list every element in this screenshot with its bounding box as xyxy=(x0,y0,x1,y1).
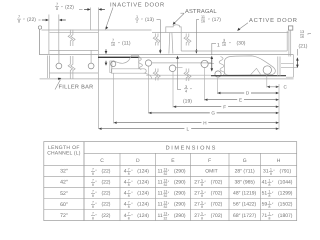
svg-text:7: 7 xyxy=(56,3,58,7)
ext line right common xyxy=(278,84,280,130)
dim left arrow right xyxy=(42,19,47,21)
extension line d long xyxy=(97,8,99,129)
filler bar top line xyxy=(50,49,99,51)
svg-text:7: 7 xyxy=(128,190,130,194)
svg-text:(124): (124) xyxy=(137,191,149,197)
svg-text:48″ (1219): 48″ (1219) xyxy=(233,191,257,197)
svg-text:11: 11 xyxy=(157,213,162,219)
svg-text:F: F xyxy=(208,158,211,164)
dim top arrow left xyxy=(100,8,105,10)
svg-text:(11): (11) xyxy=(122,41,131,47)
dim L line xyxy=(98,128,101,130)
svg-text:59: 59 xyxy=(262,202,268,208)
svg-text:3: 3 xyxy=(223,39,225,43)
svg-text:(702): (702) xyxy=(211,180,223,186)
svg-text:(22): (22) xyxy=(102,180,111,186)
bar lower line xyxy=(146,74,211,76)
svg-text:(702): (702) xyxy=(211,213,223,219)
svg-text:5: 5 xyxy=(201,212,203,216)
svg-text:H: H xyxy=(277,158,281,164)
svg-text:L: L xyxy=(187,126,190,131)
svg-text:7: 7 xyxy=(128,167,130,171)
svg-text:13: 13 xyxy=(163,212,167,216)
filler hole hanger 1 xyxy=(58,50,60,63)
active door right edge xyxy=(286,31,288,51)
channel bottom dark segment xyxy=(211,75,286,77)
latch1 case top line cont xyxy=(140,56,212,58)
svg-text:4: 4 xyxy=(124,191,127,197)
svg-text:(21): (21) xyxy=(299,43,308,49)
dim 13/16 stem xyxy=(296,49,298,56)
svg-text:8: 8 xyxy=(128,172,130,176)
svg-text:8: 8 xyxy=(270,172,272,176)
svg-text:8: 8 xyxy=(18,20,20,24)
svg-text:1: 1 xyxy=(270,167,272,171)
svg-text:(290): (290) xyxy=(174,180,186,186)
svg-text:8: 8 xyxy=(56,7,58,11)
ext line C xyxy=(266,75,268,88)
latch2 pivot circle xyxy=(215,71,221,77)
svg-text:7: 7 xyxy=(128,201,130,205)
svg-text:7: 7 xyxy=(92,201,94,205)
latch2 notch xyxy=(251,68,261,75)
latch2 spring fingers xyxy=(219,57,225,75)
svg-text:5: 5 xyxy=(201,201,203,205)
left end cap vertical xyxy=(39,29,41,55)
svg-text:(1502): (1502) xyxy=(278,202,293,208)
svg-text:ASTRAGAL: ASTRAGAL xyxy=(185,8,217,15)
svg-text:32: 32 xyxy=(163,205,167,209)
channel top line xyxy=(40,53,294,55)
svg-text:(124): (124) xyxy=(137,213,149,219)
break line 1 lower xyxy=(68,56,72,79)
latch1 body xyxy=(112,55,139,69)
ext line H xyxy=(113,73,115,123)
dim left leader dash xyxy=(39,19,41,21)
svg-text:8: 8 xyxy=(201,205,203,209)
svg-text:(290): (290) xyxy=(174,191,186,197)
svg-text:8: 8 xyxy=(269,183,271,187)
svg-text:71: 71 xyxy=(262,213,268,219)
latch2 body xyxy=(224,56,275,75)
svg-text:7: 7 xyxy=(112,39,114,43)
svg-text:7: 7 xyxy=(92,179,94,183)
dim C line xyxy=(267,86,270,88)
svg-text:4: 4 xyxy=(124,202,127,208)
dim D line xyxy=(217,92,220,94)
hole F circle xyxy=(169,65,176,72)
dim 1-3/16 elbow xyxy=(212,42,216,44)
svg-text:DIMENSIONS: DIMENSIONS xyxy=(166,146,217,152)
svg-text:8: 8 xyxy=(269,216,271,220)
svg-text:42″: 42″ xyxy=(60,180,68,186)
svg-text:41: 41 xyxy=(262,180,268,186)
astragal prongs xyxy=(168,33,171,54)
svg-text:27: 27 xyxy=(194,202,200,208)
svg-text:13: 13 xyxy=(163,167,167,171)
svg-text:(290): (290) xyxy=(174,213,186,219)
svg-text:1: 1 xyxy=(269,212,271,216)
dim E line xyxy=(204,99,207,101)
dim 13/16 text dash xyxy=(308,33,311,35)
channel bottom line xyxy=(40,78,294,80)
svg-text:72″: 72″ xyxy=(60,213,68,219)
active door left edge xyxy=(180,33,182,51)
svg-text:13: 13 xyxy=(163,201,167,205)
svg-text:8: 8 xyxy=(201,216,203,220)
svg-text:28″ (711): 28″ (711) xyxy=(235,169,255,175)
svg-text:G: G xyxy=(211,111,215,116)
right end line y63 xyxy=(281,62,294,64)
svg-text:(290): (290) xyxy=(174,169,186,175)
extension line a xyxy=(48,15,50,55)
svg-text:5: 5 xyxy=(201,179,203,183)
table grid xyxy=(44,142,297,221)
ext line F xyxy=(172,72,174,108)
svg-text:56″ (1422): 56″ (1422) xyxy=(233,202,257,208)
svg-text:68″ (1727): 68″ (1727) xyxy=(233,213,257,219)
svg-text:1: 1 xyxy=(269,179,271,183)
latch1 bottom bar xyxy=(111,69,151,79)
latch1 pivot circle xyxy=(111,61,116,66)
svg-text:8: 8 xyxy=(201,194,203,198)
svg-text:11: 11 xyxy=(201,15,205,19)
svg-text:(22): (22) xyxy=(102,202,111,208)
svg-text:F: F xyxy=(223,104,226,109)
filler bar leader xyxy=(55,80,61,90)
inactive door leader xyxy=(106,8,113,29)
ext line G xyxy=(147,66,149,113)
dim 1/2 arrow xyxy=(159,50,162,53)
svg-text:(13): (13) xyxy=(145,17,154,23)
svg-text:H: H xyxy=(203,120,206,125)
svg-text:E: E xyxy=(239,97,242,102)
svg-text:C: C xyxy=(100,158,104,164)
break line 3 upper xyxy=(184,34,188,46)
filler bar upper edge line xyxy=(50,31,99,33)
svg-text:13: 13 xyxy=(163,179,167,183)
dim 11/16 elbow xyxy=(196,19,199,21)
svg-text:32: 32 xyxy=(163,216,167,220)
svg-text:(1299): (1299) xyxy=(278,191,293,197)
extension line c xyxy=(90,8,92,31)
svg-text:D: D xyxy=(136,158,140,164)
svg-text:3: 3 xyxy=(185,85,187,89)
svg-text:31: 31 xyxy=(263,169,269,175)
svg-text:13: 13 xyxy=(300,30,304,34)
svg-text:32: 32 xyxy=(163,183,167,187)
right end line y67 xyxy=(281,67,298,69)
svg-text:52″: 52″ xyxy=(60,191,68,197)
svg-text:CHANNEL (L): CHANNEL (L) xyxy=(47,151,81,157)
svg-text:8: 8 xyxy=(128,194,130,198)
latch1 case dark top line xyxy=(98,56,140,58)
svg-text:(1044): (1044) xyxy=(278,180,293,186)
svg-text:(702): (702) xyxy=(211,191,223,197)
astragal leader xyxy=(181,12,185,14)
svg-text:32″: 32″ xyxy=(60,169,68,175)
svg-text:16: 16 xyxy=(222,43,226,47)
dim 1/2 elbow xyxy=(157,19,161,21)
svg-text:OMIT: OMIT xyxy=(205,169,218,175)
svg-text:(22): (22) xyxy=(102,169,111,175)
case right end double line xyxy=(277,57,279,77)
astragal body xyxy=(166,25,181,33)
svg-text:ACTIVE DOOR: ACTIVE DOOR xyxy=(249,17,298,24)
ext line D xyxy=(216,78,218,94)
svg-text:51: 51 xyxy=(262,191,268,197)
hole E circle xyxy=(201,60,208,67)
svg-text:1: 1 xyxy=(136,15,138,19)
svg-text:2: 2 xyxy=(136,20,138,24)
filler bar left double line xyxy=(47,56,49,79)
svg-text:(22): (22) xyxy=(65,5,74,11)
svg-text:8: 8 xyxy=(92,172,94,176)
dim 7/16 arrow upper xyxy=(105,49,107,52)
svg-text:16: 16 xyxy=(201,20,205,24)
svg-text:1: 1 xyxy=(217,42,220,48)
svg-text:32: 32 xyxy=(163,172,167,176)
svg-text:7: 7 xyxy=(92,190,94,194)
svg-text:(124): (124) xyxy=(137,180,149,186)
push bar line xyxy=(152,62,211,64)
inactive door edge line xyxy=(42,29,152,31)
svg-text:1: 1 xyxy=(269,190,271,194)
svg-text:(290): (290) xyxy=(174,202,186,208)
svg-text:8: 8 xyxy=(92,216,94,220)
dim G line xyxy=(148,112,151,114)
svg-text:(124): (124) xyxy=(137,169,149,175)
dim left arrow left xyxy=(61,19,66,21)
right end cap vertical xyxy=(293,55,295,77)
svg-text:8: 8 xyxy=(201,183,203,187)
svg-text:1: 1 xyxy=(269,201,271,205)
svg-text:(1807): (1807) xyxy=(278,213,293,219)
svg-text:4: 4 xyxy=(185,89,187,93)
svg-text:8: 8 xyxy=(92,194,94,198)
svg-text:G: G xyxy=(243,158,247,164)
svg-text:(791): (791) xyxy=(279,169,291,175)
svg-text:FILLER BAR: FILLER BAR xyxy=(59,85,94,91)
svg-text:4: 4 xyxy=(124,213,127,219)
svg-text:INACTIVE DOOR: INACTIVE DOOR xyxy=(110,1,165,8)
svg-text:27: 27 xyxy=(194,191,200,197)
active door bottom line xyxy=(181,50,287,52)
svg-text:8: 8 xyxy=(128,205,130,209)
svg-text:(22): (22) xyxy=(27,17,36,23)
hole F stub xyxy=(176,67,183,69)
svg-text:7: 7 xyxy=(128,212,130,216)
svg-text:8: 8 xyxy=(269,205,271,209)
break line 2 upper xyxy=(153,34,157,46)
break line 2 lower xyxy=(153,69,157,81)
latch2 roller circle xyxy=(263,66,271,74)
active door edge line xyxy=(152,32,288,34)
hole E stub xyxy=(208,63,214,65)
active door cap stem xyxy=(290,30,292,56)
svg-text:4: 4 xyxy=(124,180,127,186)
dim top arrow right xyxy=(84,8,89,10)
svg-text:4: 4 xyxy=(124,169,127,175)
dim F line xyxy=(173,106,176,108)
latch1 spring fingers xyxy=(139,57,143,69)
dim H line xyxy=(114,122,117,124)
dim top leader dash xyxy=(79,8,83,10)
left end cap circle xyxy=(38,26,41,29)
right end bottom corner xyxy=(286,76,294,78)
svg-text:5: 5 xyxy=(201,190,203,194)
dim 3/4in(19) arrow xyxy=(176,56,179,59)
filler hole hanger 2 xyxy=(90,50,92,63)
svg-text:7: 7 xyxy=(92,167,94,171)
latch1 roller circle xyxy=(145,60,151,66)
svg-text:(30): (30) xyxy=(237,41,246,47)
svg-text:8: 8 xyxy=(92,205,94,209)
svg-text:(22): (22) xyxy=(102,191,111,197)
svg-text:11: 11 xyxy=(157,191,162,197)
svg-text:32: 32 xyxy=(163,194,167,198)
dim 11/16 arrow xyxy=(195,50,198,53)
filler hole 2 xyxy=(88,63,94,69)
svg-text:11: 11 xyxy=(157,169,162,175)
svg-text:(19): (19) xyxy=(183,99,192,105)
ext line E xyxy=(203,68,205,101)
svg-text:(124): (124) xyxy=(137,202,149,208)
filler bar bottom line xyxy=(50,72,99,74)
extension line b xyxy=(58,15,60,55)
active door leader xyxy=(238,23,248,30)
filler hole 1 xyxy=(56,63,62,69)
break line 3 lower xyxy=(184,69,188,82)
svg-text:7: 7 xyxy=(92,212,94,216)
svg-text:(17): (17) xyxy=(212,17,221,23)
svg-text:(702): (702) xyxy=(211,202,223,208)
latch1 mount plate xyxy=(110,61,112,73)
svg-text:(22): (22) xyxy=(102,213,111,219)
dim 1-3/16 arrows xyxy=(211,56,214,59)
svg-text:8: 8 xyxy=(92,183,94,187)
svg-text:27: 27 xyxy=(194,180,200,186)
break line 1 upper xyxy=(68,30,72,47)
svg-text:8: 8 xyxy=(128,183,130,187)
svg-text:8: 8 xyxy=(128,216,130,220)
svg-text:11: 11 xyxy=(157,202,162,208)
svg-text:16: 16 xyxy=(111,43,115,47)
svg-text:60″: 60″ xyxy=(60,202,68,208)
svg-text:11: 11 xyxy=(157,180,162,186)
svg-text:16: 16 xyxy=(300,35,304,39)
active door cap square xyxy=(289,26,293,30)
svg-text:27: 27 xyxy=(194,213,200,219)
svg-text:8: 8 xyxy=(269,194,271,198)
svg-text:38″ (965): 38″ (965) xyxy=(234,180,255,186)
svg-text:7: 7 xyxy=(18,15,20,19)
svg-text:13: 13 xyxy=(163,190,167,194)
dim 7/16 arrow lower xyxy=(105,61,107,64)
dim 13/16 arrows xyxy=(296,57,299,60)
svg-text:7: 7 xyxy=(128,179,130,183)
